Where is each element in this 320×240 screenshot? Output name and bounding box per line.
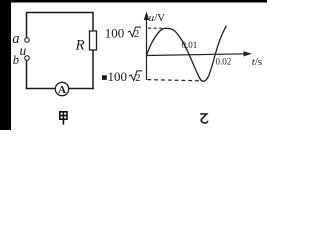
svg-text:2: 2 [134,29,139,40]
wire bottom left [26,88,56,90]
svg-text:t/s: t/s [252,56,262,68]
wire bottom right [69,88,94,90]
wire left lower [26,60,28,89]
dashed peak line [148,27,163,29]
wire left upper [26,12,28,38]
svg-text:R: R [75,37,85,53]
node a terminal [25,38,30,43]
dashed trough line [148,80,201,81]
svg-text:100: 100 [108,69,128,84]
top scan band [0,0,267,3]
svg-text:100: 100 [105,25,125,40]
resistor R [90,31,97,50]
ammeter A1 [55,82,68,95]
svg-text:a: a [12,31,19,47]
svg-text:u: u [20,43,27,58]
label yi (乙) drawn [200,114,207,123]
y axis [146,17,148,80]
wire right upper [92,12,94,32]
node b terminal [25,56,30,61]
label jia (甲) drawn [60,112,67,125]
x axis arrow [244,51,252,56]
left scan band [0,0,11,130]
wire top [27,12,94,14]
svg-text:b: b [13,53,19,67]
sine curve [147,26,227,82]
svg-text:u/V: u/V [149,12,166,24]
svg-text:A: A [58,84,66,96]
svg-text:0.02: 0.02 [216,57,232,67]
y axis arrow [144,12,149,21]
x axis [146,54,246,56]
wire right lower [92,50,94,89]
svg-text:2: 2 [135,73,140,84]
label minus-square [102,75,107,80]
